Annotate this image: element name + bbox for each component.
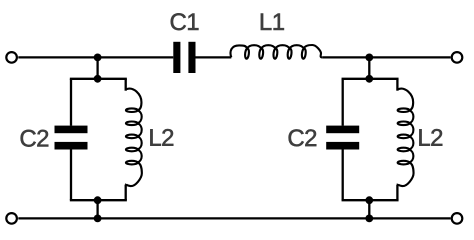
node top-left junction — [94, 54, 102, 62]
inductor L2 (right) — [397, 89, 413, 187]
capacitor C2 (left) — [55, 126, 88, 150]
node right tank top — [365, 75, 373, 83]
node left tank top — [94, 75, 102, 83]
wire left tank right branch lower stub — [125, 185, 127, 201]
capacitor C1 — [173, 42, 195, 73]
wire top-left segment — [18, 56, 173, 58]
wire left tank top line — [70, 78, 127, 80]
svg-text:C2: C2 — [19, 125, 49, 152]
inductor L1 — [231, 45, 323, 59]
inductor L2 (left) — [126, 89, 142, 187]
wire L1-to-right-terminal segment — [322, 56, 450, 58]
terminal output bottom — [452, 213, 463, 224]
node right tank bottom — [365, 196, 373, 204]
wire stub bottom-left tank — [96, 200, 98, 218]
wire stub top-left tank — [96, 57, 98, 78]
wire right tank left branch upper — [342, 79, 344, 126]
terminal input top — [6, 52, 17, 63]
wire right tank right branch upper stub — [396, 79, 398, 91]
wire left tank bottom line — [70, 199, 127, 201]
capacitor C2 (right) — [326, 126, 359, 150]
wire left tank left branch lower — [70, 149, 72, 200]
wire stub top-right tank — [368, 57, 370, 78]
terminal output top — [452, 52, 463, 63]
terminal input bottom — [6, 213, 17, 224]
svg-text:C2: C2 — [287, 125, 317, 152]
wire left tank left branch upper — [70, 79, 72, 126]
wire left tank right branch upper stub — [125, 79, 127, 91]
svg-text:L2: L2 — [417, 125, 443, 152]
node top-right junction — [365, 54, 373, 62]
wire bottom rail — [18, 217, 450, 219]
wire right tank top line — [342, 78, 399, 80]
svg-text:L1: L1 — [259, 9, 285, 36]
node bottom-left junction — [94, 215, 102, 223]
node left tank bottom — [94, 196, 102, 204]
svg-text:L2: L2 — [148, 125, 174, 152]
node bottom-right junction — [365, 215, 373, 223]
wire stub bottom-right tank — [368, 200, 370, 218]
wire right tank bottom line — [342, 199, 399, 201]
wire C1-to-L1 segment — [196, 56, 232, 58]
wire right tank right branch lower stub — [396, 185, 398, 201]
wire right tank left branch lower — [342, 149, 344, 200]
svg-text:C1: C1 — [169, 9, 199, 36]
